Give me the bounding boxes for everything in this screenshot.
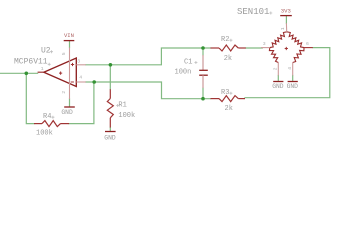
wire net +IN: op-amp pin3 to jog	[86, 48, 211, 65]
svg-text:MCP6V11: MCP6V11	[14, 58, 48, 67]
svg-text:100k: 100k	[36, 129, 53, 137]
resistor R1 bottom lead	[109, 118, 111, 128]
bridge pin 6 right	[304, 47, 313, 49]
resistor R2 right lead	[238, 47, 246, 49]
resistor R4 left lead	[34, 123, 42, 125]
svg-text:R3: R3	[221, 89, 229, 97]
svg-text:100k: 100k	[118, 112, 135, 120]
R4 origin cross	[51, 116, 54, 119]
junction node OUT	[25, 72, 29, 76]
U2 origin cross	[50, 50, 53, 53]
supply 3V3 bar	[280, 15, 292, 17]
bridge arm bottom-right	[293, 48, 304, 63]
svg-text:GND: GND	[272, 83, 284, 90]
svg-text:4: 4	[287, 67, 293, 70]
op-amp U2 triangle	[44, 58, 77, 87]
bridge arm bottom-left	[269, 48, 278, 63]
resistor R1 top lead	[109, 89, 111, 98]
svg-text:6: 6	[306, 41, 309, 47]
svg-text:2: 2	[61, 91, 67, 94]
bridge arm top-left	[270, 32, 287, 48]
resistor R2 left lead	[211, 47, 220, 49]
svg-text:SEN101: SEN101	[237, 7, 269, 17]
ground bar under R1	[105, 131, 116, 133]
svg-text:2: 2	[272, 67, 278, 70]
ground bar bridge right	[288, 81, 298, 83]
wire bridge pin4 to GND	[292, 76, 294, 82]
MCP6V11 origin cross	[48, 63, 51, 66]
bridge pin 1 top	[285, 23, 287, 32]
wire net +IN: R1 top	[109, 65, 111, 90]
R1 origin cross	[116, 104, 119, 107]
svg-text:100n: 100n	[175, 69, 192, 77]
bridge arm top-right	[287, 32, 304, 48]
wire 3V3 to bridge pin1	[285, 16, 287, 23]
capacitor C1 bottom plate	[199, 74, 208, 76]
svg-text:U2: U2	[41, 46, 51, 55]
svg-text:GND: GND	[287, 83, 299, 90]
svg-text:3V3: 3V3	[281, 7, 291, 14]
ground bar bridge left	[273, 81, 283, 83]
op-amp + mark at pin3	[71, 63, 74, 66]
wire net OUT/-IN feedback: R4 right to pin4 line	[69, 82, 94, 124]
op-amp pin 1 (OUT)	[38, 71, 44, 73]
svg-text:1: 1	[280, 27, 286, 30]
wire net OUT: left edge to op-amp pin1	[0, 72, 38, 74]
capacitor C1 top lead	[202, 55, 204, 70]
resistor R3 zigzag	[219, 96, 238, 102]
svg-text:R2: R2	[221, 36, 229, 44]
wire net -IN: op-amp pin4 to jog	[86, 82, 211, 99]
R3 origin cross	[229, 92, 232, 95]
bridge pin 4 bottom-right	[292, 63, 294, 76]
resistor R4 zigzag	[42, 121, 61, 127]
capacitor C1 top plate	[199, 69, 208, 71]
junction node +IN at R1	[109, 63, 113, 67]
op-amp pin 4 (-IN)	[76, 81, 86, 83]
bridge center cross	[285, 47, 288, 50]
svg-text:1: 1	[41, 66, 44, 72]
wire R1 bottom to GND	[109, 128, 111, 132]
svg-text:R4: R4	[43, 113, 51, 121]
junction node -IN at C1 bottom	[201, 97, 205, 101]
op-amp + mark center	[59, 72, 62, 75]
bridge pin 2 bottom-left	[277, 63, 279, 76]
R2 origin cross	[229, 39, 232, 42]
wire C1 bottom stub	[202, 88, 204, 99]
svg-text:2k: 2k	[225, 105, 233, 113]
resistor R3 right lead	[238, 98, 245, 100]
svg-text:GND: GND	[61, 109, 73, 116]
svg-text:R1: R1	[118, 101, 126, 109]
resistor R2 zigzag	[219, 45, 238, 51]
C1 origin cross	[194, 61, 197, 64]
op-amp power line pin5/pin2 vertical	[69, 48, 71, 100]
wire bridge pin2 to GND	[277, 76, 279, 82]
junction node +IN at C1 top	[201, 46, 205, 50]
op-amp pin 3 (+IN)	[76, 64, 86, 66]
svg-text:3: 3	[77, 59, 80, 65]
junction node -IN at feedback	[92, 80, 96, 84]
resistor R1 zigzag	[107, 99, 113, 118]
svg-text:5: 5	[61, 52, 67, 55]
svg-text:GND: GND	[104, 134, 116, 141]
wire net -IN: bridge pin6 around right side to R3	[245, 48, 330, 98]
resistor R4 right lead	[61, 123, 70, 125]
wire pin2 to GND	[69, 99, 71, 106]
wire C1 top stub	[202, 48, 204, 55]
bridge pin 3 left	[261, 47, 270, 49]
op-amp - mark at pin4	[71, 81, 74, 83]
capacitor C1 bottom lead	[202, 75, 204, 88]
svg-text:C1: C1	[184, 58, 192, 66]
svg-text:2k: 2k	[224, 55, 232, 63]
SEN101 origin cross	[269, 12, 272, 15]
supply VIN bar	[64, 40, 75, 42]
ground bar under op-amp	[64, 106, 75, 108]
wire VIN to pin5	[69, 41, 71, 47]
resistor R3 left lead	[211, 98, 220, 100]
svg-text:3: 3	[263, 41, 266, 47]
wire net +IN: R2 right to bridge pin3	[246, 47, 262, 49]
svg-text:4: 4	[79, 75, 82, 81]
svg-text:VIN: VIN	[64, 32, 74, 39]
wire net OUT: junction down to R4	[26, 73, 34, 123]
